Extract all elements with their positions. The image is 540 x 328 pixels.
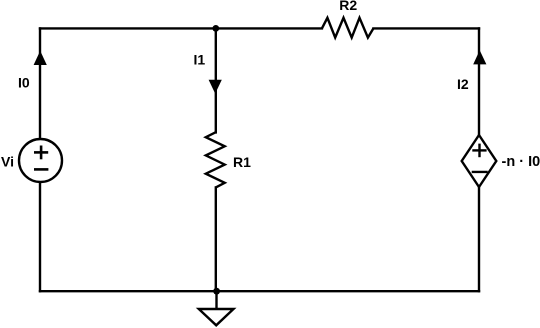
wire right vertical upper	[478, 28, 480, 135]
wire middle vertical upper	[215, 28, 217, 132]
wire top horizontal right	[373, 27, 479, 29]
dependent source -n·I0	[462, 135, 497, 187]
wire middle vertical lower	[215, 187, 217, 291]
svg-text:R1: R1	[233, 154, 251, 170]
node top junction	[212, 25, 219, 32]
resistor R2	[322, 18, 374, 38]
resistor R1	[206, 132, 225, 187]
wire top horizontal left	[40, 27, 322, 29]
svg-text:Vi: Vi	[1, 154, 14, 170]
wire left vertical upper	[39, 28, 41, 139]
svg-text:I2: I2	[457, 76, 469, 92]
ground	[199, 291, 234, 325]
current arrow I0	[34, 51, 47, 65]
svg-text:I1: I1	[194, 52, 206, 68]
svg-text:I0: I0	[18, 75, 30, 91]
wire right vertical lower	[478, 187, 480, 291]
wire left vertical lower	[39, 182, 41, 292]
svg-text:R2: R2	[339, 0, 357, 13]
voltage source Vi	[19, 139, 62, 182]
current arrow I1	[209, 80, 222, 94]
wire bottom horizontal	[40, 290, 479, 292]
current arrow I2	[473, 50, 486, 64]
node bottom junction	[213, 288, 220, 295]
svg-text:-n · I0: -n · I0	[502, 154, 540, 170]
